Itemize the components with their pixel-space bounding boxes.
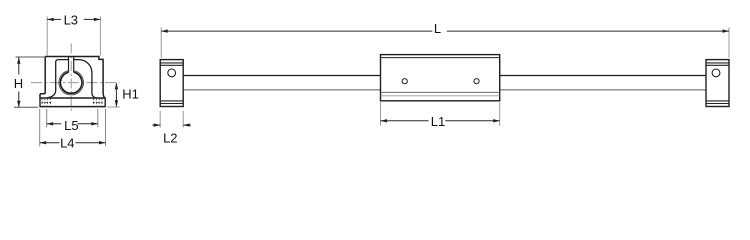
hidden mounting hole right (dashed) bbox=[93, 98, 103, 107]
left support screw hole bbox=[168, 69, 176, 77]
dimension L3 extension lines bbox=[47, 16, 100, 55]
dimension H1 line bbox=[115, 83, 117, 106]
clamp slit left wall bbox=[68, 57, 70, 73]
hidden mounting hole left (dashed) bbox=[41, 98, 51, 107]
slider block top inner line bbox=[381, 57, 500, 59]
dimension L1 arrows bbox=[381, 119, 388, 122]
inner pocket left lobe bbox=[47, 60, 69, 98]
left support top face lines bbox=[160, 63, 183, 65]
right shaft support body bbox=[706, 60, 729, 107]
bore circle (thick, gap at slit) bbox=[60, 72, 82, 93]
slider block lower line 2 bbox=[381, 95, 500, 97]
slider block hole left bbox=[402, 79, 407, 84]
base flange bbox=[40, 98, 105, 107]
shaft segment right bottom line bbox=[500, 89, 706, 91]
dimension L1 extension lines bbox=[381, 102, 500, 126]
dimension L2 arrows bbox=[154, 123, 161, 126]
left shaft support body bbox=[160, 60, 183, 107]
right support screw hole bbox=[712, 69, 720, 77]
slider block hole right bbox=[474, 79, 479, 84]
dimension H line bbox=[18, 57, 20, 107]
dimension L1 line bbox=[381, 120, 500, 122]
dimension L arrows bbox=[161, 29, 168, 32]
dimension L4 arrows bbox=[40, 141, 47, 144]
slider block outline bbox=[381, 55, 500, 101]
clamp slit right wall bbox=[73, 57, 75, 73]
dimension L5 line bbox=[47, 123, 98, 125]
right support top face lines bbox=[706, 63, 729, 65]
body outline bbox=[40, 57, 105, 99]
dimension L2 extension lines bbox=[160, 111, 183, 128]
shaft segment left bottom line bbox=[183, 89, 380, 91]
dimension L5 arrows bbox=[47, 122, 54, 125]
dimension H extension lines bbox=[14, 57, 45, 107]
svg-text:L2: L2 bbox=[163, 130, 177, 145]
svg-text:L1: L1 bbox=[431, 114, 445, 129]
shaft segment left bbox=[183, 75, 380, 77]
svg-text:H1: H1 bbox=[122, 86, 139, 101]
dimension L3 line bbox=[47, 18, 100, 20]
vertical centerline bbox=[70, 44, 72, 114]
svg-text:L4: L4 bbox=[60, 135, 74, 150]
dimension L4 line bbox=[40, 142, 106, 144]
dimension L2 arrow tails bbox=[152, 124, 191, 126]
dimension L line bbox=[161, 30, 729, 32]
bore chamfer circle (thin, gap at slit) bbox=[59, 71, 84, 95]
dimension L3 arrows bbox=[47, 18, 54, 21]
svg-text:L: L bbox=[434, 21, 441, 36]
flange bottom edge bbox=[39, 106, 105, 108]
horizontal centerline bbox=[31, 82, 120, 84]
dimension H arrows bbox=[17, 57, 20, 64]
svg-text:L3: L3 bbox=[64, 13, 78, 28]
svg-text:L5: L5 bbox=[64, 118, 78, 133]
shaft segment right bbox=[500, 75, 706, 77]
dimension L extension lines bbox=[161, 27, 729, 57]
inner pocket right lobe bbox=[74, 60, 97, 98]
slider block lower line 1 bbox=[381, 91, 500, 93]
dimension H1 extension line bottom bbox=[107, 106, 120, 108]
dimension L5 extension lines bbox=[47, 109, 98, 127]
svg-text:H: H bbox=[14, 76, 23, 91]
left support bottom face lines bbox=[160, 101, 183, 104]
dimension H1 arrows bbox=[115, 83, 118, 90]
right support bottom face lines bbox=[706, 101, 729, 104]
dimension L4 extension lines bbox=[40, 109, 106, 146]
